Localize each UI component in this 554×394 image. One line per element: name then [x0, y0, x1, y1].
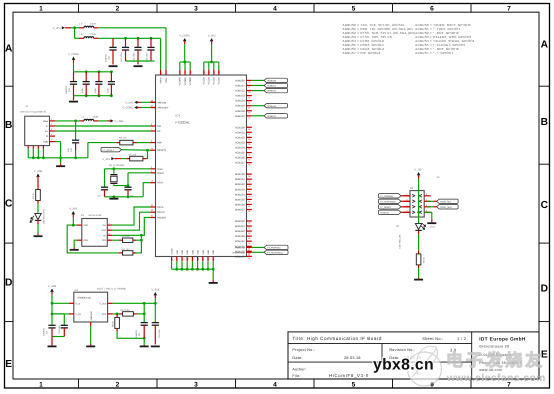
- title block frame: [288, 332, 539, 379]
- svg-text:BCBUS3: BCBUS3: [235, 235, 245, 238]
- svg-text:48: 48: [248, 222, 250, 225]
- wire R5 pullup to RESET#: [146, 150, 147, 158]
- svg-text:DP: DP: [157, 130, 161, 133]
- svg-text:18: 18: [248, 91, 250, 94]
- capacitor C14: [147, 46, 154, 48]
- ground under X2: [427, 222, 436, 224]
- svg-text:ADBUS4: ADBUS4: [235, 100, 245, 103]
- svg-text:50: 50: [151, 99, 153, 102]
- svg-text:21: 21: [151, 105, 153, 108]
- svg-text:BDBUS6: BDBUS6: [235, 203, 245, 206]
- svg-text:ACBUS0: ACBUS0: [235, 126, 245, 129]
- ground under C9: [151, 345, 160, 347]
- svg-text:V_3P3: V_3P3: [151, 288, 159, 291]
- svg-text:USB-micro-B-type/SMD-fla: USB-micro-B-type/SMD-fla: [20, 110, 47, 113]
- svg-text:BCBUS4: BCBUS4: [235, 240, 245, 243]
- svg-text:DI: DI: [103, 234, 106, 237]
- net flag ACBUS6: [379, 210, 402, 214]
- resistor R4: [120, 140, 133, 145]
- svg-text:ACBUS1: ACBUS1: [235, 131, 245, 134]
- ground under X1: [56, 165, 65, 167]
- resistor R10: [123, 238, 133, 242]
- svg-text:7: 7: [151, 128, 152, 131]
- wire USB D- to IC DM: [55, 125, 151, 127]
- ground under crystal: [109, 198, 118, 200]
- svg-text:OSCI: OSCI: [157, 168, 163, 171]
- svg-text:VCORE: VCORE: [179, 77, 182, 86]
- wire VPLL vertical: [165, 28, 167, 70]
- ground under IC4: [209, 282, 218, 284]
- wire R10 to DI: [136, 235, 141, 240]
- svg-text:OSCO: OSCO: [157, 172, 164, 175]
- svg-text:GND: GND: [181, 249, 184, 254]
- svg-text:4: 4: [273, 381, 277, 388]
- capacitor C9: [154, 303, 156, 322]
- wire VCORE bus: [180, 61, 190, 63]
- svg-text:35: 35: [202, 258, 205, 260]
- svg-text:VCC: VCC: [83, 224, 88, 227]
- svg-text:10uF/6V: 10uF/6V: [105, 53, 108, 62]
- capacitor C22: [83, 81, 90, 83]
- svg-text:FT_SUSPEND#: FT_SUSPEND#: [267, 251, 283, 254]
- op IC4 FT2232HL body: [156, 75, 247, 257]
- svg-text:GND: GND: [202, 249, 205, 254]
- svg-text:IDT Europe GmbH: IDT Europe GmbH: [479, 336, 526, 342]
- svg-text:VCORE: VCORE: [184, 77, 187, 86]
- wire DI to EEDATA: [112, 218, 150, 236]
- svg-text:C4 100n: C4 100n: [58, 325, 61, 334]
- svg-text:C12 100n: C12 100n: [120, 52, 123, 62]
- svg-text:SUSPEND#: SUSPEND#: [232, 251, 245, 254]
- wire R8 to ground rail: [117, 332, 144, 339]
- svg-text:ADJ: ADJ: [102, 313, 106, 316]
- svg-text:B: B: [541, 117, 548, 128]
- svg-text:HiComIF8_V3-0: HiComIF8_V3-0: [329, 373, 369, 378]
- svg-text:V_3P3: V_3P3: [102, 158, 110, 161]
- svg-text:VCORE: VCORE: [189, 77, 192, 86]
- svg-text:6: 6: [426, 204, 427, 207]
- svg-text:ACBUS3: ACBUS3: [235, 141, 245, 144]
- svg-text:AGND: AGND: [171, 248, 174, 255]
- svg-text:51: 51: [212, 258, 215, 260]
- svg-text:41: 41: [248, 190, 250, 193]
- wire junction down to L4 row: [74, 28, 76, 39]
- svg-text:ybx8.cn: ybx8.cn: [373, 357, 434, 374]
- svg-text:LED-YELLOW: LED-YELLOW: [399, 233, 402, 248]
- wire VSS to ground: [74, 240, 77, 247]
- svg-text:39: 39: [248, 180, 250, 183]
- wire V_3P3 rail to VCC and R11: [67, 225, 119, 253]
- svg-text:LP38693-adj: LP38693-adj: [77, 296, 91, 299]
- svg-text:GND: GND: [186, 249, 189, 254]
- svg-text:2: 2: [426, 193, 427, 196]
- svg-text:V_Out: V_Out: [99, 302, 106, 305]
- svg-text:8: 8: [151, 123, 152, 126]
- wire DO to R10: [112, 239, 119, 241]
- svg-text:ADBUS1: ADBUS1: [267, 85, 277, 88]
- svg-text:BDBUS1: BDBUS1: [235, 178, 245, 181]
- svg-text:GND/TAB: GND/TAB: [90, 311, 93, 321]
- svg-text:53: 53: [248, 232, 250, 235]
- svg-text:VREGIN: VREGIN: [157, 101, 166, 104]
- svg-text:2: 2: [116, 5, 120, 12]
- ground under IC2: [86, 345, 95, 347]
- net flag ADBUS7: [264, 114, 288, 118]
- svg-text:BDBUS3: BDBUS3: [235, 188, 245, 191]
- svg-text:Title: High Communication IF B: Title: High Communication IF Board: [292, 336, 382, 341]
- svg-text:61: 61: [151, 215, 153, 218]
- svg-text:ADBUS7: ADBUS7: [235, 115, 245, 118]
- svg-text:28.03.18: 28.03.18: [344, 356, 361, 360]
- resistor R8: [115, 317, 120, 328]
- svg-text:BCBUS7: BCBUS7: [235, 255, 245, 258]
- svg-text:13: 13: [151, 180, 153, 183]
- svg-text:Grenzstrasse 28: Grenzstrasse 28: [479, 345, 509, 349]
- svg-text:Project No.:: Project No.:: [292, 348, 315, 352]
- wire V_Out rail: [113, 302, 156, 304]
- svg-text:V_In: V_In: [75, 302, 80, 305]
- svg-text:2: 2: [51, 123, 52, 126]
- svg-text:File:: File:: [292, 374, 300, 378]
- wire CS to EECS: [112, 207, 150, 225]
- svg-text:63: 63: [151, 204, 153, 207]
- net flag FT_RESET: [379, 205, 402, 209]
- svg-text:ACBUS6: ACBUS6: [380, 211, 390, 214]
- svg-text:C: C: [5, 199, 13, 210]
- svg-text:Revision No.:: Revision No.:: [389, 348, 415, 352]
- svg-text:TRGD_SCL: TRGD_SCL: [440, 200, 452, 203]
- svg-text:IC4: IC4: [176, 114, 181, 118]
- IC4 PWREN# SUSPEND# pins: [247, 246, 252, 248]
- net flag FT_PWREN#: [264, 245, 288, 249]
- watermark elecfans circle logo: [408, 346, 442, 386]
- ground under IC1: [70, 249, 79, 251]
- svg-text:A: A: [541, 39, 549, 50]
- svg-text:D-: D-: [46, 125, 49, 128]
- svg-text:FT_RESET: FT_RESET: [103, 149, 115, 152]
- net flag FT_SUSPEND#: [379, 199, 402, 203]
- svg-text:ADBUS1: ADBUS1: [235, 84, 245, 87]
- svg-text:D: D: [5, 278, 12, 289]
- svg-text:34: 34: [248, 163, 250, 166]
- svg-text:12: 12: [184, 71, 187, 73]
- svg-text:E: E: [5, 359, 12, 370]
- svg-text:REF: REF: [157, 142, 162, 145]
- capacitor C4: [52, 313, 64, 315]
- svg-text:Author:: Author:: [292, 367, 306, 371]
- svg-text:1 / 2: 1 / 2: [457, 336, 466, 341]
- wire ADBUS1: [252, 85, 264, 87]
- svg-text:VSS: VSS: [83, 239, 88, 242]
- wire ADBUS2: [252, 90, 264, 92]
- svg-text:V_USB: V_USB: [115, 120, 124, 123]
- svg-text:VCCIO: VCCIO: [218, 77, 221, 84]
- wire C3 C4 bottoms: [52, 336, 64, 338]
- wire TEST to ground: [143, 183, 150, 197]
- svg-text:10uH: 10uH: [90, 33, 96, 36]
- svg-text:VPLL: VPLL: [165, 76, 168, 82]
- capacitor C17: [101, 186, 108, 188]
- svg-text:16: 16: [248, 81, 250, 84]
- wire FT_RESET to X2: [401, 206, 410, 208]
- watermark elecfans chinese text: [446, 351, 542, 370]
- capacitor C18: [127, 186, 129, 188]
- wire crystal bottom to OSCO: [114, 173, 128, 186]
- wire X2 pin to ground: [424, 211, 432, 213]
- capacitor C18: [124, 186, 131, 188]
- svg-text:BDBUS7: BDBUS7: [235, 209, 245, 212]
- svg-text:3: 3: [194, 381, 198, 388]
- svg-text:1: 1: [109, 222, 110, 225]
- capacitor C3: [48, 324, 55, 326]
- svg-text:C9 100n: C9 100n: [158, 329, 161, 338]
- svg-text:GND: GND: [197, 249, 200, 254]
- capacitor C17: [104, 169, 106, 187]
- svg-text:FT_PWREN#: FT_PWREN#: [380, 195, 394, 198]
- svg-text:BCBUS1: BCBUS1: [235, 225, 245, 228]
- capacitor C12: [122, 46, 129, 48]
- svg-text:ACBUS5: ACBUS5: [235, 152, 245, 155]
- svg-text:www.elecfans.com: www.elecfans.com: [446, 373, 546, 384]
- wire R11 pullup: [136, 240, 141, 253]
- svg-text:子: 子: [466, 351, 483, 370]
- resistor R9: [416, 254, 421, 265]
- wire OSCI: [105, 168, 151, 170]
- svg-text:93C46-SO08: 93C46-SO08: [89, 214, 103, 217]
- svg-text:VREGOUT: VREGOUT: [157, 107, 169, 110]
- svg-text:VPHY: VPHY: [160, 77, 163, 84]
- svg-text:GND1: GND1: [430, 226, 436, 229]
- wire R6 to V_Out: [137, 313, 144, 315]
- svg-text:CS: CS: [103, 224, 107, 227]
- crystal Q1: [110, 174, 117, 176]
- svg-text:GND: GND: [43, 141, 48, 144]
- svg-text:GND: GND: [212, 249, 215, 254]
- svg-text:60: 60: [248, 249, 250, 252]
- svg-text:47: 47: [207, 258, 210, 260]
- svg-text:4: 4: [109, 237, 110, 240]
- svg-text:36: 36: [248, 254, 250, 257]
- svg-text:ADBUS0: ADBUS0: [235, 79, 245, 82]
- capacitor C21: [70, 81, 77, 83]
- svg-text:100n: 100n: [81, 87, 84, 93]
- svg-text:BDBUS0: BDBUS0: [235, 173, 245, 176]
- svg-text:FT_SUSPEND#: FT_SUSPEND#: [380, 200, 396, 203]
- svg-text:25: 25: [197, 258, 200, 260]
- svg-text:52: 52: [248, 227, 250, 230]
- svg-text:VCCIO: VCCIO: [203, 77, 206, 84]
- svg-text:D: D: [541, 284, 548, 295]
- svg-text:40: 40: [248, 185, 250, 188]
- wire ADBUS0: [252, 79, 264, 81]
- svg-text:19: 19: [248, 96, 250, 99]
- wire ADJ to R6: [113, 313, 120, 315]
- svg-text:20: 20: [218, 71, 221, 73]
- wire L3 out to VPLL: [98, 27, 166, 29]
- svg-text:B: B: [5, 120, 12, 131]
- svg-text:43: 43: [248, 195, 250, 198]
- svg-text:FT2232HL: FT2232HL: [176, 120, 191, 124]
- svg-text:27: 27: [248, 133, 250, 136]
- wire OSCO: [128, 172, 151, 174]
- svg-text:FT_RESET: FT_RESET: [380, 206, 392, 209]
- svg-text:EECS: EECS: [157, 206, 164, 209]
- svg-text:ACBUS2: ACBUS2: [235, 136, 245, 139]
- wire V_CORE top rail: [74, 71, 112, 73]
- svg-text:ADBUS2: ADBUS2: [267, 90, 277, 93]
- svg-text:BCBUS0: BCBUS0: [235, 220, 245, 223]
- svg-text:电: 电: [446, 351, 463, 370]
- wire V_TGT down: [418, 178, 420, 190]
- wire FT_SUSPEND#: [252, 251, 264, 253]
- svg-text:发: 发: [485, 351, 504, 370]
- svg-text:R9 1k: R9 1k: [423, 256, 426, 263]
- wire X1 shield ground rail: [28, 157, 88, 159]
- capacitor C23: [95, 81, 102, 83]
- svg-text:10uH: 10uH: [90, 23, 96, 26]
- capacitor C11: [109, 46, 116, 48]
- capacitor C3: [51, 314, 53, 325]
- wire ADBUS5: [252, 105, 264, 107]
- svg-text:ADBUS2: ADBUS2: [235, 90, 245, 93]
- ground under LED D1: [34, 235, 43, 237]
- svg-text:100n: 100n: [94, 87, 97, 93]
- svg-text:15: 15: [192, 258, 195, 260]
- net flag FT_SUSPEND#: [264, 250, 288, 254]
- svg-text:Date:: Date:: [292, 356, 302, 360]
- resistor R3: [36, 190, 41, 201]
- wire VPHY vertical: [160, 38, 162, 69]
- svg-text:BDBUS4: BDBUS4: [235, 193, 245, 196]
- svg-text:GND: GND: [207, 249, 210, 254]
- inductor L1: [84, 119, 94, 121]
- ground under C8: [140, 345, 149, 347]
- wire V_USB to V_In and EN: [52, 302, 69, 304]
- svg-text:ADBUS7 = RI#, GPIOL3: ADBUS7 = RI#, GPIOL3: [343, 51, 381, 55]
- svg-text:46: 46: [248, 210, 250, 213]
- svg-text:5: 5: [181, 259, 184, 260]
- svg-text:V_3P3: V_3P3: [69, 207, 77, 210]
- svg-text:28: 28: [248, 138, 250, 141]
- net flag ADBUS5: [264, 104, 288, 108]
- wire V_3P3 to L3: [71, 27, 79, 29]
- svg-text:14: 14: [151, 147, 153, 150]
- svg-text:V_3P3: V_3P3: [125, 102, 133, 105]
- svg-text:R8 1k: R8 1k: [111, 320, 114, 327]
- capacitor C4: [61, 324, 68, 326]
- svg-text:25: 25: [189, 71, 192, 73]
- svg-text:17: 17: [248, 86, 250, 89]
- svg-text:22: 22: [248, 106, 250, 109]
- IC4 right pins ADBUS/ACBUS/BDBUS/BCBUS: [247, 79, 252, 81]
- wire crystal ground rail: [105, 196, 144, 198]
- svg-text:32: 32: [248, 153, 250, 156]
- svg-text:1: 1: [39, 381, 43, 388]
- svg-text:10uH: 10uH: [93, 116, 99, 119]
- resistor R6: [123, 312, 134, 316]
- IC4 left pins: [151, 101, 156, 103]
- svg-text:DM: DM: [157, 125, 161, 128]
- svg-text:56: 56: [203, 71, 206, 73]
- svg-text:42: 42: [208, 71, 211, 73]
- svg-text:V_En: V_En: [75, 313, 81, 316]
- svg-text:3: 3: [160, 72, 163, 73]
- wire VBus to L1: [55, 120, 80, 122]
- svg-text:VBus: VBus: [43, 120, 49, 123]
- svg-text:24: 24: [248, 117, 250, 120]
- svg-text:55: 55: [248, 242, 250, 245]
- wire cap C12-C14 bottoms: [126, 60, 152, 62]
- svg-text:1: 1: [51, 118, 52, 121]
- capacitor C15 on VBus: [75, 121, 77, 140]
- wire R4 to REF: [137, 142, 151, 144]
- svg-text:V_CORE: V_CORE: [179, 34, 190, 37]
- svg-text:Sheet No.:: Sheet No.:: [422, 336, 443, 341]
- svg-text:ADBUS3: ADBUS3: [235, 95, 245, 98]
- svg-text:R4 12k: R4 12k: [119, 136, 127, 139]
- svg-text:TEST: TEST: [157, 182, 163, 185]
- svg-text:7: 7: [507, 5, 511, 12]
- svg-text:ACBUS4: ACBUS4: [235, 146, 245, 149]
- svg-text:5: 5: [352, 381, 356, 388]
- capacitor C13: [134, 46, 141, 48]
- svg-text:VCCIO: VCCIO: [213, 77, 216, 84]
- svg-text:FT_PWREN#: FT_PWREN#: [267, 247, 281, 250]
- capacitor C8: [141, 322, 148, 324]
- wire IC4 ground bus: [172, 268, 214, 270]
- svg-text:8: 8: [165, 72, 168, 73]
- capacitor C15: [72, 139, 79, 141]
- svg-text:EEDATA: EEDATA: [157, 217, 166, 220]
- svg-text:V_3P3: V_3P3: [53, 27, 61, 30]
- svg-text:ACBUS7: ACBUS7: [235, 162, 245, 165]
- svg-text:44: 44: [248, 200, 250, 203]
- svg-text:3: 3: [51, 128, 52, 131]
- svg-text:10u/50V: 10u/50V: [43, 327, 46, 336]
- wire R4 to ground rail: [87, 143, 89, 158]
- svg-text:1: 1: [39, 5, 43, 12]
- svg-text:21: 21: [248, 101, 250, 104]
- svg-text:DO: DO: [102, 239, 106, 242]
- svg-text:3: 3: [109, 232, 110, 235]
- svg-text:2: 2: [151, 166, 152, 169]
- svg-text:5: 5: [51, 139, 52, 142]
- wire to crystal top: [113, 169, 115, 174]
- svg-text:29: 29: [248, 143, 250, 146]
- svg-text:10u/16V: 10u/16V: [135, 329, 138, 338]
- svg-text:4: 4: [273, 5, 277, 12]
- svg-text:5: 5: [352, 5, 356, 12]
- X1 shield pins: [27, 146, 29, 149]
- svg-text:VOUT = VADJ x (1 + R6/R8): VOUT = VADJ x (1 + R6/R8): [97, 287, 126, 290]
- wire to VREGIN: [141, 101, 151, 103]
- ground under C3: [48, 345, 57, 347]
- wire ACBUS6 to X2: [401, 211, 410, 213]
- svg-text:TRGD_SDA: TRGD_SDA: [440, 206, 452, 209]
- wire V_TGT through connector: [418, 191, 420, 213]
- svg-text:59: 59: [248, 257, 250, 260]
- wire USB D+ to IC DP: [55, 130, 151, 132]
- frame column ticks top/bottom: [78, 4, 80, 13]
- net flag TRGD_SDA: [437, 205, 459, 209]
- svg-text:4: 4: [51, 133, 52, 136]
- wire VCCIO bus: [204, 61, 219, 63]
- svg-text:100n: 100n: [106, 87, 109, 93]
- svg-text:BDBUS5: BDBUS5: [235, 198, 245, 201]
- net flag ADBUS1: [264, 83, 288, 87]
- svg-text:ADBUS5: ADBUS5: [267, 105, 277, 108]
- svg-text:Q1 12.00 MHz: Q1 12.00 MHz: [109, 164, 125, 167]
